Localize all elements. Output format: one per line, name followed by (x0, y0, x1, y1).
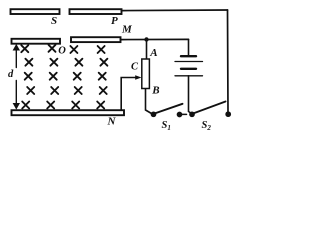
plate M (bar right of O) (71, 37, 121, 42)
switch S1 terminal left (151, 111, 157, 117)
svg-text:S1: S1 (162, 120, 171, 132)
svg-text:B: B (151, 85, 159, 97)
battery cell2 long plate (175, 75, 203, 77)
dimension arrowhead down (13, 103, 20, 110)
svg-text:A: A (149, 47, 157, 59)
battery wire top stub (188, 39, 190, 55)
wire from plate P to top-right corner (122, 9, 228, 12)
dimension arrow d shaft (15, 47, 17, 68)
dimension arrowhead up (13, 44, 20, 51)
switch S1 lever (155, 104, 183, 114)
battery cell1 short plate (181, 55, 196, 57)
slider arrowhead (135, 75, 141, 80)
svg-text:M: M (121, 24, 133, 36)
switch S2 terminal left (189, 111, 195, 117)
wire stub between S1 and battery junction (180, 113, 187, 115)
svg-text:C: C (131, 62, 139, 73)
svg-text:P: P (111, 15, 118, 27)
wire right edge vertical (227, 10, 230, 113)
wire from plate M to battery corner (121, 38, 189, 40)
wire junction to rheostat top (146, 40, 148, 60)
upper plate left of O (bar) (12, 39, 61, 44)
svg-text:N: N (107, 116, 117, 128)
battery cell1 long plate (175, 61, 203, 63)
svg-text:S2: S2 (202, 120, 212, 132)
plate P (top-right bar) (70, 9, 122, 14)
battery cell2 short plate (181, 68, 196, 70)
battery wire bottom stub (189, 76, 192, 114)
magnetic field x row4 (27, 87, 107, 94)
plate N (bottom bar) (12, 110, 125, 115)
switch S2 terminal right (225, 111, 231, 117)
rheostat R (box) (142, 59, 150, 89)
svg-text:S: S (51, 15, 57, 27)
magnetic field x row2 (25, 59, 107, 66)
magnetic field x row3 (25, 73, 106, 80)
node junction on top wire (144, 37, 148, 41)
plate S (top-left bar) (11, 9, 60, 14)
switch S1 terminal right (177, 112, 183, 118)
wire rheostat B to switch S1 (146, 89, 152, 114)
magnetic field x row1 (21, 45, 104, 53)
magnetic field x row5 (22, 102, 104, 109)
svg-text:d: d (8, 69, 14, 80)
svg-text:O: O (58, 46, 66, 57)
wire slider C to plate N (121, 78, 137, 110)
switch S2 lever (193, 102, 226, 114)
